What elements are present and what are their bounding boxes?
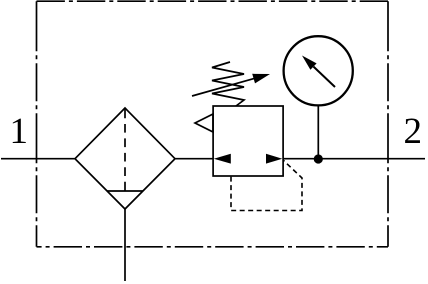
regulator flow arrow right xyxy=(266,154,282,164)
port label 1 xyxy=(13,119,26,143)
wire: regulator outlet through junction to port 2 xyxy=(213,158,425,160)
gauge needle xyxy=(314,67,336,87)
filter F1 body (diamond) xyxy=(75,108,175,209)
node: junction dot xyxy=(314,154,323,163)
enclosure border (dash-dot assembly box) xyxy=(37,1,389,247)
wire: gauge stem xyxy=(317,105,319,160)
regulator R1 body (square) xyxy=(213,106,283,176)
wire: filter outlet to regulator xyxy=(175,158,213,160)
regulator relief vent triangle xyxy=(195,114,213,132)
filter water separator chord xyxy=(107,190,143,192)
regulator flow arrow left xyxy=(214,154,231,164)
adjustment arrow through spring xyxy=(192,78,256,96)
port label 2 xyxy=(405,119,420,143)
pressure gauge G1 (circle) xyxy=(284,36,353,105)
regulator adjustment spring (zigzag) xyxy=(212,62,244,106)
pilot line (dashed feedback loop) xyxy=(231,160,302,211)
wire: inlet line from port 1 to filter xyxy=(1,158,75,160)
filter element (dashed center line) xyxy=(124,110,126,192)
wire: condensate drain line xyxy=(124,209,126,281)
